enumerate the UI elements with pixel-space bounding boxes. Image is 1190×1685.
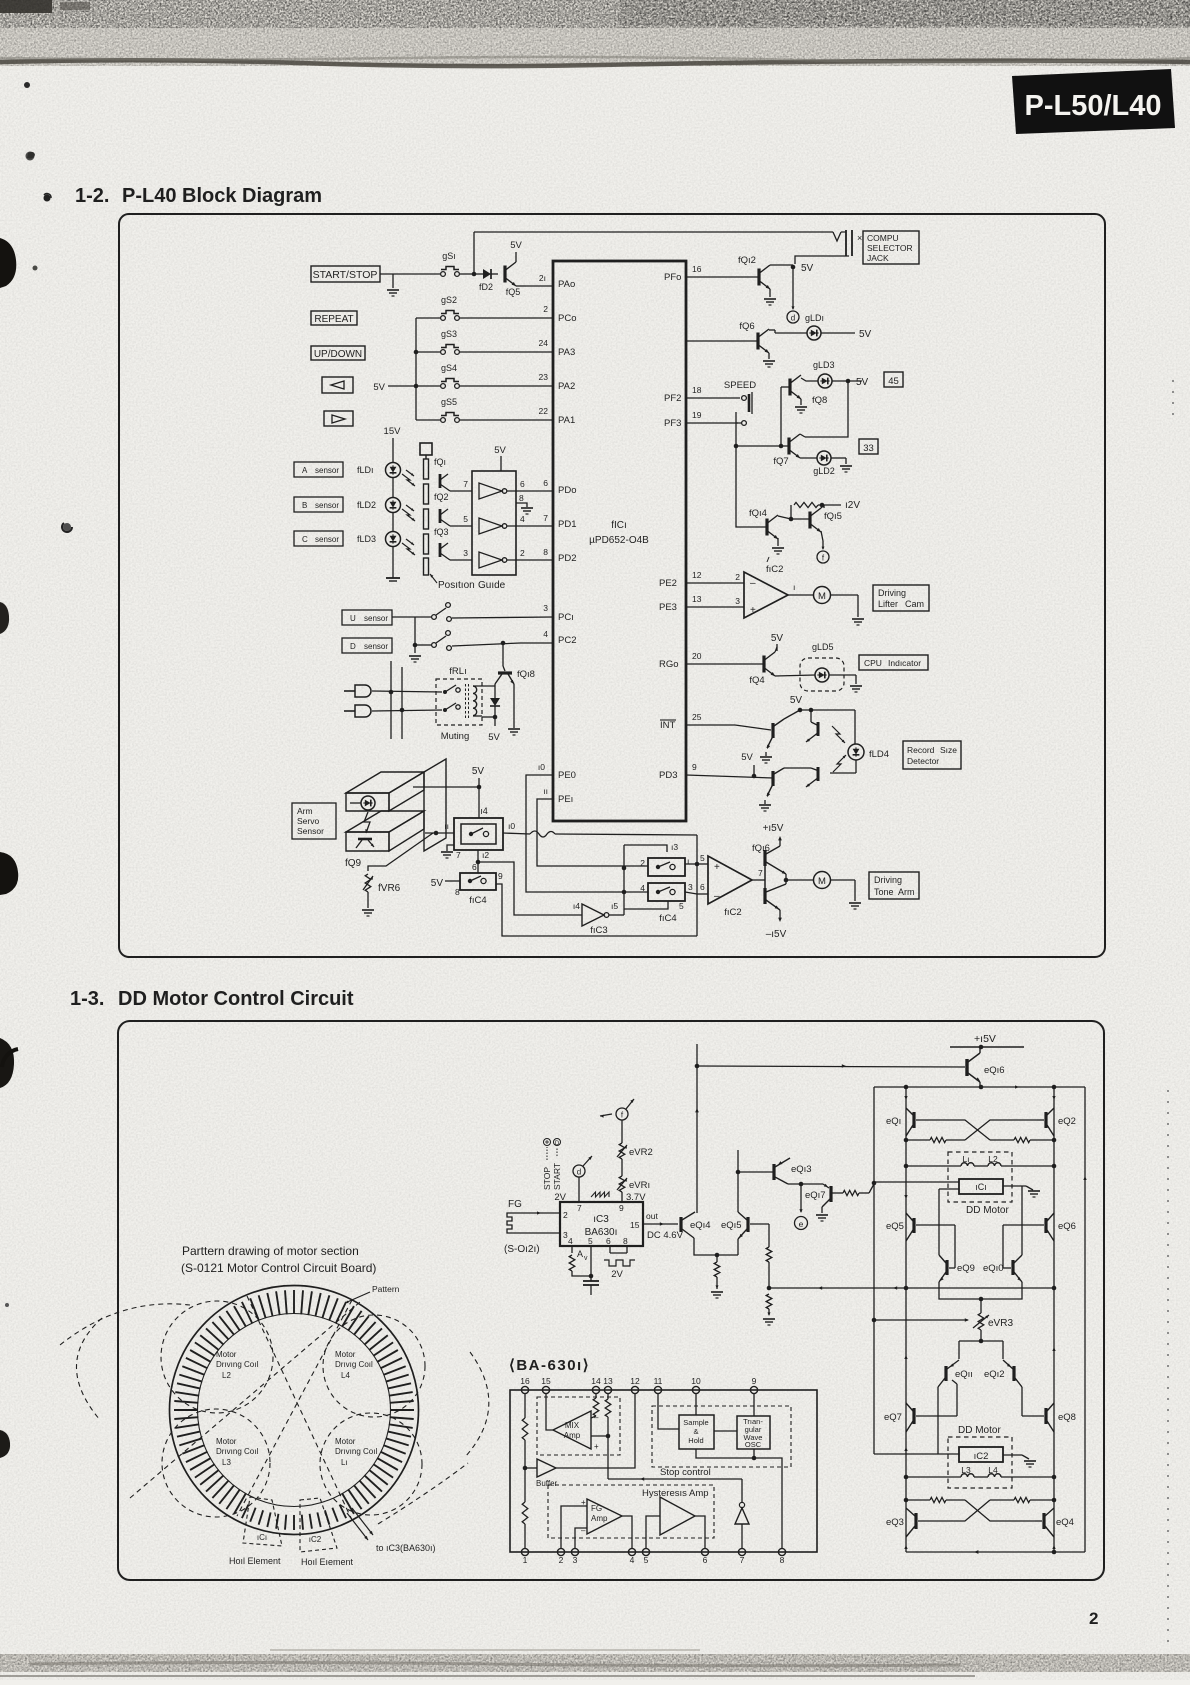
svg-text:OSC: OSC	[745, 1440, 762, 1449]
svg-text:Tone: Tone	[874, 887, 894, 897]
transistor eQ6	[1046, 1213, 1076, 1241]
MIX amp dashed box	[537, 1397, 620, 1455]
diode fD2	[476, 269, 498, 292]
svg-text:gS5: gS5	[441, 397, 457, 407]
wire arm servo to 5V node	[413, 786, 479, 788]
MIX amp triangle	[553, 1411, 599, 1451]
svg-text:4: 4	[640, 883, 645, 893]
5V supply below relay	[482, 717, 500, 743]
5V supply at fQ4	[771, 633, 784, 652]
wire pin12 to buffer output	[556, 1394, 635, 1468]
15V supply for sensor LEDs	[384, 426, 402, 462]
transistor eQ8	[1046, 1403, 1076, 1432]
5V supply at fQ5	[510, 240, 522, 262]
+15V bar	[950, 1033, 1024, 1049]
transistor fQ5	[505, 262, 520, 297]
wire eQ5 base network	[916, 1225, 955, 1268]
sample hold dashed box	[652, 1406, 791, 1467]
hysteresis dashed box	[548, 1485, 714, 1538]
phototransistor fQ1	[434, 457, 450, 491]
wire block edge to iC2	[874, 1453, 959, 1455]
wire fQ7 collector	[800, 434, 805, 437]
5V stub at PD3	[741, 752, 754, 776]
wire eQ16 emitter to block rail	[979, 1082, 981, 1087]
svg-text:Sıze: Sıze	[940, 745, 957, 755]
svg-text:Indıcator: Indıcator	[888, 658, 921, 668]
svg-text:fQ6: fQ6	[739, 321, 754, 332]
svg-text:2: 2	[520, 548, 525, 558]
wire node to test point e	[799, 1184, 802, 1213]
scan artifacts right edge	[1168, 380, 1173, 1648]
svg-text:eQı0: eQı0	[983, 1263, 1004, 1274]
label Position Guide	[429, 573, 506, 591]
label box C sensor	[294, 531, 343, 546]
wire gLD5 to ground	[829, 675, 862, 692]
svg-text:Sensor: Sensor	[297, 826, 324, 836]
wire sample hold to osc	[714, 1430, 737, 1432]
svg-text:5V: 5V	[494, 445, 506, 456]
svg-text:5V: 5V	[373, 382, 385, 393]
wire block edge to iC1	[874, 1181, 959, 1183]
wire pin15 to MIX output	[546, 1394, 553, 1430]
svg-text:–: –	[750, 578, 756, 589]
svg-text:Pattern: Pattern	[372, 1284, 400, 1294]
transistor eQ16	[967, 1047, 1005, 1082]
svg-text:ıCı: ıCı	[975, 1182, 987, 1192]
svg-text:ı4: ı4	[480, 806, 488, 816]
svg-text:2: 2	[559, 1555, 564, 1565]
wire op-amp output node 7	[752, 868, 765, 880]
wire iC1 to eQ10	[1021, 1186, 1023, 1255]
wire D sensor to pin 4 PC2	[452, 629, 553, 646]
wire iC1 to eQ9	[939, 1189, 959, 1255]
svg-text:5V: 5V	[431, 878, 444, 889]
light arrows B	[402, 505, 416, 522]
svg-text:ı3: ı3	[671, 842, 678, 852]
svg-text:4: 4	[630, 1555, 635, 1565]
light arrows upper	[832, 726, 846, 744]
svg-text:eVR3: eVR3	[988, 1318, 1013, 1329]
scan noise top band	[0, 0, 1190, 66]
transistor fQ7	[773, 434, 801, 467]
svg-text:2: 2	[543, 304, 548, 314]
svg-text:6: 6	[703, 1555, 708, 1565]
phototransistor upper	[805, 710, 819, 743]
svg-text:12: 12	[630, 1376, 640, 1386]
svg-text:fıC4: fıC4	[659, 913, 676, 924]
motor stator slot ring	[174, 1290, 414, 1530]
svg-text:Motor: Motor	[335, 1437, 356, 1446]
transistor eQ10	[983, 1255, 1022, 1282]
coil L3	[961, 1465, 974, 1477]
stop control line	[608, 1436, 742, 1481]
wire IC to fQ6 base	[686, 340, 758, 342]
svg-text:eVR2: eVR2	[629, 1147, 653, 1158]
button label REPEAT	[311, 311, 357, 325]
svg-text:fQ4: fQ4	[749, 675, 764, 686]
transistor eQ13	[774, 1158, 812, 1184]
transistor fQ15	[791, 508, 842, 533]
wire pin9 PD3 to detector	[686, 762, 773, 778]
hall IC2 box	[959, 1447, 1003, 1462]
button right arrow	[324, 411, 353, 426]
svg-text:15: 15	[541, 1376, 551, 1386]
svg-text:ıı: ıı	[444, 821, 449, 831]
wire eQ17 collector with resistor to block	[832, 1181, 876, 1196]
svg-text:ı0: ı0	[508, 821, 515, 831]
svg-text:eQı6: eQı6	[984, 1065, 1005, 1076]
iC3 pin5 capacitor	[583, 1246, 599, 1295]
variable resistor eVR3	[973, 1313, 1013, 1330]
DD motor 1 dashed box	[948, 1152, 1012, 1216]
svg-text:3: 3	[688, 882, 693, 892]
svg-text:DD Motor Control Circuit: DD Motor Control Circuit	[118, 988, 354, 1010]
left bus x906 lower	[904, 1288, 909, 1552]
svg-text:fICı: fICı	[611, 520, 627, 531]
svg-text:fıC2: fıC2	[766, 564, 783, 575]
svg-text:ıC2: ıC2	[309, 1535, 322, 1544]
svg-text:8: 8	[543, 547, 548, 557]
wire fQ4 emitter to gLD5	[775, 675, 815, 676]
wire pin 11 PE1 routing	[537, 786, 648, 866]
vertical feed to eQ13 base	[736, 1150, 774, 1255]
section title 1-2	[75, 185, 322, 207]
svg-text:MIX: MIX	[565, 1421, 580, 1430]
svg-text:4: 4	[568, 1236, 573, 1246]
wire eQ13 emitter to eQ17 base	[788, 1182, 829, 1189]
wire pin2 to FG amp plus	[561, 1506, 587, 1548]
relay coil	[466, 684, 496, 718]
svg-text:5V: 5V	[472, 766, 485, 777]
svg-text:Guıde: Guıde	[478, 580, 506, 591]
5V supply at switch i4	[472, 766, 485, 818]
svg-text:ı2: ı2	[482, 850, 489, 860]
svg-text:ıC3: ıC3	[593, 1214, 609, 1225]
wire eQ14 emitter to shared resistor	[694, 1238, 738, 1257]
svg-text:8: 8	[780, 1555, 785, 1565]
svg-text:7: 7	[577, 1203, 582, 1213]
wire eQ6 base network	[1003, 1225, 1044, 1268]
BA6301 top pins 16 15 14 13 12 11 10 9	[520, 1376, 757, 1394]
FG generator symbol	[507, 1199, 522, 1233]
control line to analog switch pin 13	[624, 842, 678, 852]
variable resistor eVR1	[617, 1176, 650, 1202]
svg-text:fQı4: fQı4	[749, 508, 767, 519]
svg-text:eQı7: eQı7	[805, 1190, 826, 1201]
wire buffer3 output to pin 8 PD2	[507, 547, 553, 560]
svg-text:4: 4	[520, 514, 525, 524]
svg-text:C: C	[302, 535, 308, 544]
svg-text:PE3: PE3	[659, 602, 677, 613]
motor stator outer circle	[170, 1286, 419, 1535]
wire fIC4 pin 9 output	[496, 871, 697, 936]
svg-text:fLD2: fLD2	[357, 500, 376, 510]
svg-text:d: d	[577, 1168, 581, 1177]
wire iC3 pin15 out to eQ14	[643, 1211, 684, 1241]
svg-text:STOP: STOP	[542, 1167, 552, 1190]
buffer gate 3	[479, 552, 507, 568]
svg-text:PD2: PD2	[558, 553, 576, 564]
transistor eQ7	[884, 1403, 914, 1432]
svg-text:13: 13	[603, 1376, 613, 1386]
coil circle L2 dashed	[161, 1301, 273, 1413]
wire pin25 INT to detector	[686, 712, 771, 730]
fQ6 emitter ground	[763, 353, 775, 367]
left bus x906 upper	[904, 1087, 909, 1290]
svg-text:Driving: Driving	[878, 588, 906, 598]
wire LED bottom	[830, 760, 856, 773]
pattern drawing caption	[181, 1244, 376, 1275]
svg-text:CPU: CPU	[864, 658, 882, 668]
svg-text:PA1: PA1	[558, 415, 575, 426]
svg-text:9: 9	[692, 762, 697, 772]
phototransistor fQ2	[434, 492, 450, 526]
switch box fIC4	[460, 873, 496, 906]
svg-text:µPD652-O4B: µPD652-O4B	[589, 535, 649, 546]
svg-text:(S-Oı2ı): (S-Oı2ı)	[504, 1244, 540, 1255]
svg-text:DD Motor: DD Motor	[958, 1425, 1001, 1436]
svg-text:5V: 5V	[856, 377, 869, 388]
svg-text:3: 3	[543, 603, 548, 613]
fQ14 emitter ground	[772, 538, 784, 554]
svg-text:PC2: PC2	[558, 635, 576, 646]
wire eQ11 to iC2	[937, 1387, 939, 1454]
svg-text:PFo: PFo	[664, 272, 681, 283]
svg-text:fLD4: fLD4	[869, 749, 889, 760]
wire fQ15 collector to 12V node	[821, 505, 824, 508]
svg-text:2V: 2V	[611, 1269, 623, 1280]
svg-text:9: 9	[619, 1203, 624, 1213]
transistor eQ1	[886, 1108, 914, 1136]
IC U2 iC3 BA6301	[560, 1202, 643, 1246]
right bus x1054 upper	[1052, 1087, 1057, 1290]
transistor eQ2	[1046, 1108, 1076, 1136]
svg-text:START: START	[552, 1163, 562, 1190]
svg-text:2: 2	[735, 572, 740, 582]
svg-text:ı4: ı4	[573, 901, 580, 911]
inverter triangle at pin7	[735, 1479, 749, 1548]
label box CPU Indicator	[859, 655, 928, 670]
feedback routing vertical x697	[696, 835, 698, 936]
svg-text:PCo: PCo	[558, 313, 576, 324]
svg-text:5V: 5V	[741, 752, 753, 763]
wire eVR2 to test point f	[621, 1120, 623, 1143]
svg-text:eQ4: eQ4	[1056, 1517, 1074, 1528]
LED in arm servo	[350, 796, 375, 810]
svg-text:D: D	[555, 1141, 560, 1147]
svg-text:PA2: PA2	[558, 381, 575, 392]
wire iC1 right to ground	[1003, 1186, 1040, 1197]
eQ17 emitter ground	[816, 1207, 828, 1221]
wire fIC3 output up to control line	[609, 845, 626, 915]
phototransistor fQ3	[434, 527, 450, 560]
transistor fQ18	[495, 669, 535, 685]
label box B sensor	[294, 497, 343, 512]
switch i4 pin 7 ground	[441, 845, 461, 860]
svg-text:9: 9	[752, 1376, 757, 1386]
svg-text:eQı4: eQı4	[690, 1220, 711, 1231]
wire speed common down to fQ7 base	[734, 423, 789, 448]
wire block edge to eVR3	[872, 1318, 969, 1323]
top rail to eQ16 base	[697, 1064, 965, 1068]
svg-text:Arm: Arm	[297, 806, 313, 816]
output block bottom rail	[906, 1550, 1085, 1555]
DD motor 2 dashed box	[948, 1425, 1012, 1488]
svg-text:14: 14	[591, 1376, 601, 1386]
wire fQ1 to buffer pin 7	[450, 479, 472, 491]
wire iC2 right to ground	[1003, 1455, 1036, 1467]
iC3 pin labels	[568, 1203, 640, 1246]
wire node to test point d	[791, 267, 794, 310]
wire fQ3 to buffer pin 3	[450, 548, 472, 560]
rotated label START	[552, 1139, 562, 1191]
label box U sensor	[342, 610, 392, 625]
svg-text:PF2: PF2	[664, 393, 681, 404]
svg-text:Drıvıng Coıl: Drıvıng Coıl	[216, 1447, 258, 1456]
svg-text:+ı5V: +ı5V	[974, 1033, 996, 1045]
LED gLD1	[805, 313, 824, 340]
transistor eQ12	[984, 1360, 1022, 1387]
wire D sensor node to fQ18	[503, 643, 505, 671]
svg-text:eQ6: eQ6	[1058, 1221, 1076, 1232]
iC3 pins 6 8 square wave	[604, 1246, 635, 1280]
switch U sensor	[392, 603, 451, 622]
svg-text:REPEAT: REPEAT	[314, 314, 353, 325]
wire plug2 to relay contact	[372, 710, 442, 711]
svg-text:7: 7	[543, 513, 548, 523]
svg-text:eQıı: eQıı	[955, 1369, 973, 1380]
svg-text:out: out	[646, 1211, 658, 1221]
inverter fIC3	[573, 901, 618, 936]
svg-text:eVRı: eVRı	[629, 1180, 650, 1191]
relay contact 2	[443, 703, 460, 712]
svg-text:Record: Record	[907, 745, 935, 755]
wire pin11 to sample hold	[658, 1394, 679, 1429]
5V supply at fIC4 pin 8	[431, 862, 477, 897]
wire fQ8 collector to gLD3	[801, 378, 818, 381]
svg-text:5V: 5V	[488, 732, 500, 743]
svg-text:Drıvıng Coıl: Drıvıng Coıl	[216, 1360, 258, 1369]
transistor fQ6	[739, 321, 770, 354]
wire fQ5 emitter to pin 21 PA0	[516, 273, 553, 286]
coil L2	[988, 1154, 1001, 1166]
svg-text:+: +	[714, 862, 720, 873]
coil L4	[988, 1465, 1001, 1477]
svg-text:gS3: gS3	[441, 329, 457, 339]
svg-text:fQı5: fQı5	[824, 511, 842, 522]
svg-text:B: B	[302, 501, 307, 510]
svg-text:12: 12	[692, 570, 702, 580]
svg-text:3: 3	[735, 596, 740, 606]
svg-text:ı5: ı5	[611, 901, 618, 911]
triangular wave osc box	[737, 1416, 770, 1449]
wire switch i4 pin 10 with squiggle	[503, 821, 697, 837]
wire gS5 to pin 22 PA1	[460, 406, 553, 420]
wire fQ7 emitter to gLD2 and ground	[800, 458, 852, 472]
svg-text:gLD2: gLD2	[813, 466, 835, 476]
wire to eVR3	[980, 1299, 982, 1313]
coil L1	[961, 1154, 974, 1166]
svg-text:Motor: Motor	[216, 1350, 237, 1359]
svg-text:UP/DOWN: UP/DOWN	[314, 349, 362, 360]
svg-text:fQ3: fQ3	[434, 527, 449, 537]
label box Driving Tone Arm	[869, 872, 919, 899]
wire gS3 to pin 24 PA3	[460, 338, 553, 352]
svg-text:6: 6	[700, 882, 705, 892]
label box A sensor	[294, 462, 343, 477]
svg-text:Drıvıng Coıl: Drıvıng Coıl	[335, 1447, 377, 1456]
svg-text:L3: L3	[222, 1458, 231, 1467]
svg-text:Hoıl Eıement: Hoıl Eıement	[301, 1557, 354, 1567]
svg-text:Arm: Arm	[898, 887, 915, 897]
resistor R lower left	[522, 1502, 528, 1524]
svg-text:6: 6	[606, 1236, 611, 1246]
svg-text:2: 2	[563, 1210, 568, 1220]
svg-text:fQı6: fQı6	[752, 843, 770, 854]
svg-text:24: 24	[539, 338, 549, 348]
svg-text:15: 15	[630, 1220, 640, 1230]
section title 1-3	[70, 988, 354, 1010]
svg-text:U: U	[350, 614, 356, 623]
svg-text:5: 5	[463, 514, 468, 524]
switch D sensor	[415, 631, 451, 651]
transistor eQ15	[721, 1212, 748, 1239]
svg-text:Amp: Amp	[591, 1514, 608, 1523]
svg-text:L2: L2	[222, 1371, 231, 1380]
svg-text:to ıC3(BA630ı): to ıC3(BA630ı)	[376, 1543, 436, 1553]
svg-text:ıC2: ıC2	[974, 1451, 989, 1462]
relay contact 1	[443, 685, 460, 694]
iC3 pin4 resistor network	[569, 1246, 591, 1276]
svg-text:8: 8	[455, 887, 460, 897]
svg-text:15V: 15V	[384, 426, 402, 437]
fQ8 emitter ground	[795, 399, 807, 413]
svg-text:18: 18	[692, 385, 702, 395]
svg-text:L4: L4	[341, 1371, 350, 1380]
switch supply bus wire	[414, 318, 440, 420]
svg-text:Hysteresıs Amp: Hysteresıs Amp	[642, 1488, 709, 1499]
RCA plug 1	[344, 685, 371, 697]
arm servo back plate	[424, 759, 446, 851]
node 45rpm with 5V	[832, 377, 869, 388]
svg-text:ıCı: ıCı	[257, 1533, 267, 1542]
rotated label STOP	[542, 1139, 552, 1191]
svg-text:RGo: RGo	[659, 659, 679, 670]
fQ12 emitter ground	[764, 289, 776, 305]
motor coil wire L1 L2	[906, 1165, 1054, 1167]
resistor eQ15 node upper	[766, 1247, 772, 1290]
svg-text:P-L40 Block Diagram: P-L40 Block Diagram	[122, 185, 322, 207]
svg-text:2: 2	[640, 858, 645, 868]
svg-text:45: 45	[888, 376, 899, 387]
output node wire to motor	[784, 874, 813, 884]
hall element iC1 trapezoid	[243, 1497, 282, 1546]
+15V supply at fQ16	[763, 823, 784, 840]
outer dashed arcs	[60, 1304, 489, 1524]
wire FG to iC3 pin 3	[518, 1230, 568, 1240]
svg-text:PE2: PE2	[659, 578, 677, 589]
wire pin 10 PE0 routing	[526, 762, 648, 892]
svg-text:2: 2	[1089, 1609, 1098, 1628]
svg-text:fQ7: fQ7	[773, 456, 788, 467]
svg-text:PD1: PD1	[558, 519, 576, 530]
svg-text:eQı3: eQı3	[791, 1164, 812, 1175]
svg-text:eQı: eQı	[886, 1116, 901, 1127]
svg-text:COMPU: COMPU	[867, 233, 899, 243]
svg-text:–ı5V: –ı5V	[766, 929, 787, 940]
svg-text:JACK: JACK	[867, 253, 889, 263]
svg-text:16: 16	[520, 1376, 530, 1386]
